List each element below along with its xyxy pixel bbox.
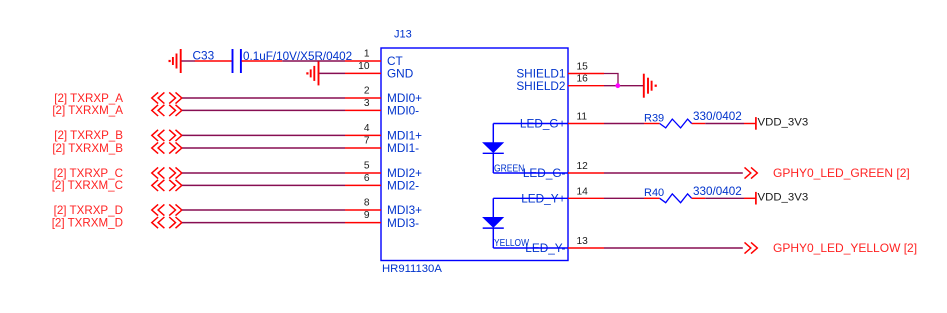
J13 pin 9 (MDI3-) stub (345, 222, 381, 224)
wire TXRXP_A to J13 (182, 97, 345, 99)
power symbol VDD_3V3 (yellow LED) (756, 192, 808, 205)
off-page connector TXRXM_A (152, 105, 182, 116)
svg-text:MDI3-: MDI3- (387, 216, 419, 230)
value label 330/0402 (R39) (693, 110, 742, 123)
svg-text:7: 7 (364, 136, 370, 147)
svg-text:5: 5 (364, 161, 370, 172)
svg-text:VDD_3V3: VDD_3V3 (758, 192, 809, 204)
wire J13 pin 15 (SHIELD1) (604, 74, 618, 86)
pin number 9 (364, 210, 370, 221)
pin name LED_G+ (520, 117, 566, 131)
svg-text:6: 6 (364, 173, 370, 184)
pin name MDI3- (387, 216, 419, 230)
wire ground to J13 pin 10 (GND net) (319, 72, 345, 74)
pin name MDI3+ (387, 203, 422, 217)
ground symbol at shield (644, 74, 657, 98)
svg-text:1: 1 (364, 49, 370, 60)
svg-text:GPHY0_LED_GREEN [2]: GPHY0_LED_GREEN [2] (773, 166, 910, 180)
capacitor C33 (195, 49, 282, 73)
green LED (inside J13) with internal wiring, anode to pin 11, cathode to pin 12 (483, 124, 568, 175)
resistor R40 (644, 194, 705, 203)
wire C33 to J13 pin 1 (CT net) (282, 60, 345, 62)
pin number 16 (577, 74, 589, 85)
svg-text:3: 3 (364, 98, 370, 109)
net label [2] TXRXP_C (54, 167, 123, 180)
svg-text:[2] TXRXP_D: [2] TXRXP_D (54, 204, 123, 217)
J13 pin 4 (MDI1+) stub (345, 134, 381, 136)
svg-text:15: 15 (577, 62, 589, 73)
pin name LED_Y+ (521, 192, 565, 206)
J13 pin 5 (MDI2+) stub (345, 172, 381, 174)
junction SHIELD1/SHIELD2 (615, 83, 620, 88)
off-page connector GPHY0_LED_YELLOW (745, 242, 758, 253)
svg-text:11: 11 (577, 112, 588, 123)
pin number 5 (364, 161, 370, 172)
J13 pin 2 (MDI0+) stub (345, 97, 381, 99)
svg-text:C33: C33 (193, 48, 215, 62)
wire TXRXM_A to J13 (182, 109, 345, 111)
pin number 11 (577, 112, 588, 123)
wire pin 12 GPHY0_LED_GREEN (604, 172, 743, 174)
svg-text:330/0402: 330/0402 (693, 185, 742, 198)
pin name MDI0+ (387, 91, 422, 105)
pin name GND (387, 67, 413, 81)
svg-text:YELLOW: YELLOW (494, 237, 529, 249)
pin name MDI1+ (387, 129, 422, 143)
svg-text:10: 10 (358, 61, 370, 72)
off-page connector TXRXM_B (152, 142, 182, 153)
off-page connector TXRXM_C (152, 180, 182, 191)
J13 pin 13 (LED_Y-) stub (568, 247, 604, 249)
wire TXRXP_D to J13 (182, 209, 345, 211)
off-page connector TXRXP_B (152, 130, 182, 141)
J13 pin 11 (LED_G+) stub (568, 123, 604, 125)
resistor R39 (644, 119, 705, 128)
svg-text:GREEN: GREEN (494, 162, 524, 174)
wire R40 to VDD_3V3 (705, 197, 755, 199)
svg-text:MDI1-: MDI1- (387, 141, 419, 155)
J13 pin 7 (MDI1-) stub (345, 147, 381, 149)
pin number 15 (577, 62, 589, 73)
pin name MDI2- (387, 179, 419, 193)
wire TXRXP_B to J13 (182, 134, 345, 136)
pin number 1 (364, 49, 370, 60)
J13 pin 6 (MDI2-) stub (345, 184, 381, 186)
pin number 13 (577, 236, 589, 247)
J13 pin 8 (MDI3+) stub (345, 209, 381, 211)
J13 pin 1 (CT) stub (345, 60, 381, 62)
net label [2] TXRXM_D (52, 216, 123, 229)
svg-text:R40: R40 (644, 187, 664, 199)
J13 pin 12 (LED_G-) stub (568, 172, 604, 174)
pin name LED_Y- (525, 241, 565, 255)
wire TXRXM_D to J13 (182, 222, 345, 224)
pin number 7 (364, 136, 370, 147)
pin number 3 (364, 98, 370, 109)
value label 330/0402 (R40) (693, 185, 742, 198)
wire pin 13 GPHY0_LED_YELLOW (604, 247, 743, 249)
J13 pin 16 (SHIELD2) stub (568, 85, 604, 87)
svg-text:VDD_3V3: VDD_3V3 (758, 117, 809, 129)
svg-text:[2] TXRXM_C: [2] TXRXM_C (52, 179, 123, 192)
svg-text:HR911130A: HR911130A (382, 263, 442, 275)
pin name MDI2+ (387, 166, 422, 180)
svg-text:12: 12 (577, 161, 589, 172)
off-page connector TXRXP_C (152, 167, 182, 178)
pin name MDI0- (387, 104, 419, 118)
pin number 14 (577, 186, 589, 197)
svg-text:4: 4 (364, 123, 370, 134)
power symbol VDD_3V3 (green LED) (756, 117, 808, 130)
svg-text:MDI2-: MDI2- (387, 179, 419, 193)
reference designator C33 (193, 48, 215, 62)
ground symbol at C33 (169, 49, 181, 73)
net label [2] TXRXP_B (54, 129, 123, 142)
svg-text:8: 8 (364, 198, 370, 209)
J13 pin 10 (GND) stub (345, 72, 381, 74)
svg-text:SHIELD2: SHIELD2 (516, 79, 565, 93)
ground symbol at J13 pin 10 (306, 61, 318, 85)
svg-text:2: 2 (364, 86, 370, 97)
reference designator J13 (394, 29, 412, 41)
pin number 2 (364, 86, 370, 97)
pin number 6 (364, 173, 370, 184)
pin number 4 (364, 123, 370, 134)
pin number 12 (577, 161, 589, 172)
pin name CT (387, 54, 403, 68)
wire TXRXM_C to J13 (182, 184, 345, 186)
net label [2] TXRXM_C (52, 179, 123, 192)
wire J13 pin 16 (SHIELD2) to ground (604, 85, 644, 87)
svg-text:J13: J13 (394, 29, 412, 41)
off-page connector TXRXP_D (152, 204, 182, 215)
net label [2] TXRXP_A (54, 92, 123, 105)
svg-text:GPHY0_LED_YELLOW [2]: GPHY0_LED_YELLOW [2] (773, 241, 917, 255)
connector J13 body (HR911130A RJ45 jack outline) (381, 48, 568, 261)
pin name SHIELD1 (516, 67, 565, 81)
net label GPHY0_LED_GREEN [2] (773, 166, 910, 180)
off-page connector GPHY0_LED_GREEN (745, 167, 758, 178)
svg-text:R39: R39 (644, 112, 664, 124)
svg-text:[2] TXRXP_C: [2] TXRXP_C (54, 167, 123, 180)
J13 pin 3 (MDI0-) stub (345, 109, 381, 111)
wire TXRXM_B to J13 (182, 147, 345, 149)
svg-text:16: 16 (577, 74, 589, 85)
wire TXRXP_C to J13 (182, 172, 345, 174)
net label [2] TXRXP_D (54, 204, 123, 217)
svg-text:[2] TXRXM_A: [2] TXRXM_A (52, 104, 123, 117)
pin name MDI1- (387, 141, 419, 155)
J13 pin 14 (LED_Y+) stub (568, 197, 604, 199)
off-page connector TXRXP_A (152, 92, 182, 103)
wire R39 to VDD_3V3 (705, 123, 755, 125)
net label [2] TXRXM_B (52, 142, 123, 155)
svg-text:[2] TXRXM_B: [2] TXRXM_B (52, 142, 123, 155)
svg-text:GND: GND (387, 67, 413, 81)
reference designator R39 (644, 112, 664, 124)
net label GPHY0_LED_YELLOW [2] (773, 241, 917, 255)
part number HR911130A (382, 263, 442, 275)
svg-text:[2] TXRXP_B: [2] TXRXP_B (54, 129, 123, 142)
svg-text:14: 14 (577, 186, 589, 197)
J13 pin 15 (SHIELD1) stub (568, 73, 604, 75)
pin name LED_G- (523, 166, 566, 180)
yellow LED (inside J13) with internal wiring, anode to pin 14, cathode to pin 13 (483, 198, 568, 249)
reference designator R40 (644, 187, 664, 199)
wire ground to C33 (182, 60, 196, 62)
pin number 8 (364, 198, 370, 209)
svg-text:[2] TXRXM_D: [2] TXRXM_D (52, 216, 123, 229)
svg-text:[2] TXRXP_A: [2] TXRXP_A (54, 92, 123, 105)
value label 0.1uF/10V/X5R/0402 (243, 50, 352, 63)
svg-text:13: 13 (577, 236, 589, 247)
off-page connector TXRXM_D (152, 217, 182, 228)
wire pin 14 to R40 (604, 197, 644, 199)
svg-text:MDI0-: MDI0- (387, 104, 419, 118)
net label [2] TXRXM_A (52, 104, 123, 117)
svg-text:330/0402: 330/0402 (693, 110, 742, 123)
svg-text:9: 9 (364, 210, 370, 221)
pin name SHIELD2 (516, 79, 565, 93)
wire pin 11 to R39 (604, 123, 644, 125)
pin number 10 (358, 61, 370, 72)
